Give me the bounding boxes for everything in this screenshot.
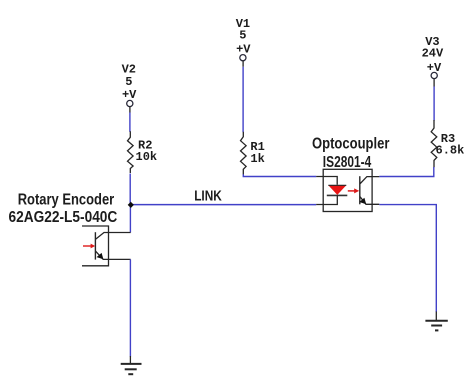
resistor R1 — [241, 132, 247, 175]
svg-text:24V: 24V — [422, 47, 444, 61]
optocoupler red coupling arrow — [348, 188, 359, 193]
resistor R3 — [431, 120, 437, 168]
wire junction to encoder collector — [129, 205, 131, 233]
svg-text:Optocoupler: Optocoupler — [312, 136, 389, 153]
optocoupler collector lead (pin 4) — [360, 177, 380, 184]
terminal V1 — [240, 55, 246, 61]
junction dot at LINK node — [128, 202, 134, 208]
label V2 (name/value: V2 / 5 / +V) — [122, 63, 138, 102]
rotary encoder collector lead — [95, 233, 130, 240]
ground (left) — [121, 356, 142, 374]
svg-text:6.8k: 6.8k — [436, 144, 465, 158]
optocoupler phototransistor base bar — [359, 176, 361, 204]
terminal V3 pin lead — [433, 79, 435, 87]
wire V3 terminal to R3 — [433, 87, 435, 121]
rotary encoder red input arrow — [83, 244, 95, 249]
resistor R2 — [128, 131, 134, 173]
optocoupler U? body box — [323, 169, 372, 211]
wire R1 to optocoupler anode pin — [243, 174, 316, 176]
optocoupler LED cathode bar — [327, 194, 348, 196]
label R3 value (R3 / 6.8k) — [436, 132, 465, 158]
label V1 (name/value: V1 / 5 / +V) — [236, 17, 252, 56]
svg-text:5: 5 — [239, 29, 246, 43]
svg-text:IS2801-4: IS2801-4 — [323, 154, 371, 171]
svg-text:62AG22-L5-040C: 62AG22-L5-040C — [9, 209, 118, 226]
wire R2 to LINK junction — [129, 174, 131, 205]
optocoupler emitter lead with arrowhead (pin 3) — [359, 196, 379, 204]
svg-text:Rotary Encoder: Rotary Encoder — [18, 191, 115, 208]
rotary encoder emitter lead with arrowhead — [95, 251, 130, 259]
wire V2 terminal to R2 — [129, 113, 131, 132]
svg-text:+V: +V — [236, 42, 251, 56]
rotary encoder base bar — [94, 232, 96, 259]
wire optocoupler emitter to ground — [379, 205, 436, 312]
wire R3 to optocoupler collector pin — [379, 167, 434, 177]
label R2 value (R2 / 10k) — [136, 139, 158, 165]
optocoupler anode pin path (pin 1) — [316, 177, 337, 185]
wire V1 terminal to R1 — [242, 67, 244, 132]
terminal V1 pin lead — [242, 61, 244, 67]
rotary encoder U? phototransistor body (open-left box) — [82, 226, 109, 266]
label V3 (name/value: V3 / 24V / +V) — [422, 35, 444, 75]
terminal V3 — [431, 72, 437, 78]
wire encoder emitter to ground — [129, 259, 131, 356]
wire LINK (junction to optocoupler cathode pin) — [130, 204, 316, 206]
svg-text:5: 5 — [125, 75, 132, 89]
svg-text:+V: +V — [122, 88, 137, 102]
optocoupler LED (red triangle) — [328, 185, 346, 195]
label R1 value (R1 / 1k) — [250, 140, 264, 166]
ground (right) — [425, 312, 447, 331]
svg-text:+V: +V — [427, 61, 442, 75]
terminal V2 pin lead — [129, 107, 131, 113]
optocoupler cathode pin path (pin 2) — [316, 195, 337, 204]
svg-text:1k: 1k — [250, 152, 264, 166]
svg-text:10k: 10k — [136, 150, 158, 164]
svg-text:LINK: LINK — [194, 188, 222, 205]
terminal V2 — [127, 100, 133, 106]
